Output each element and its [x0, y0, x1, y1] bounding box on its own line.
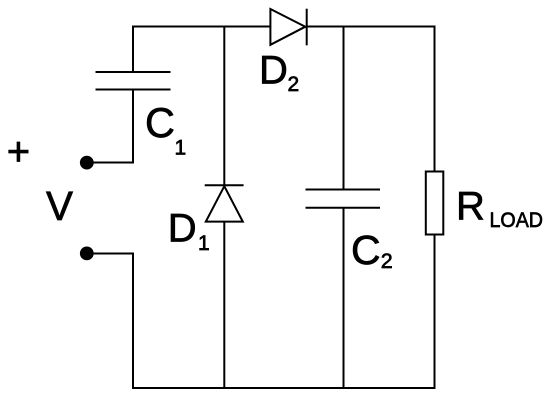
svg-text:V: V	[46, 183, 73, 229]
wire: D1 branch vertical top	[223, 26, 225, 186]
wire: C2 branch vertical bottom	[343, 208, 345, 389]
wire: top rail, C1 branch to D2 anode	[132, 26, 271, 28]
svg-text:D: D	[168, 207, 197, 251]
node: - input terminal dot	[80, 247, 94, 261]
wire: right branch vertical top	[434, 26, 436, 173]
wire: right branch vertical bottom	[434, 234, 436, 389]
capacitor C1	[96, 72, 171, 90]
svg-text:1: 1	[175, 137, 187, 160]
svg-text:R: R	[456, 184, 485, 228]
svg-text:LOAD: LOAD	[490, 208, 544, 232]
svg-text:2: 2	[288, 73, 300, 96]
wire: C2 branch vertical top	[343, 26, 345, 190]
wire: C1 bottom plate to + terminal	[87, 90, 134, 163]
capacitor C2	[306, 190, 381, 208]
diode D1	[205, 185, 244, 221]
diode D2	[270, 9, 306, 46]
svg-text:D: D	[259, 49, 288, 93]
svg-text:C: C	[145, 99, 175, 146]
wire: top rail, D2 cathode to right branch	[307, 26, 435, 28]
resistor RLOAD	[426, 172, 444, 235]
wire: D1 branch vertical bottom	[223, 222, 225, 389]
svg-text:C: C	[351, 227, 381, 273]
wire: - terminal to bottom rail	[87, 254, 134, 389]
svg-text:2: 2	[381, 249, 393, 273]
svg-text:+: +	[7, 130, 30, 174]
wire: bottom rail	[132, 387, 435, 389]
svg-text:1: 1	[198, 232, 210, 255]
wire: C1 branch vertical top	[132, 26, 134, 73]
node: + input terminal dot	[80, 156, 94, 170]
